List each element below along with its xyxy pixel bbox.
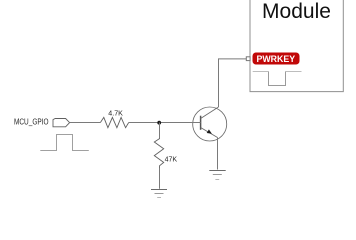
ground under Q1 emitter bbox=[209, 171, 225, 180]
svg-text:47K: 47K bbox=[165, 157, 178, 164]
module outline U1 (Module box) bbox=[250, 0, 343, 92]
wire tag to R1 bbox=[70, 122, 101, 124]
transistor Q1 bbox=[193, 107, 227, 141]
wire collector to PWRKEY pin bbox=[219, 59, 247, 107]
wire R2 to ground bbox=[159, 168, 161, 189]
pin square on Module edge (PWRKEY pin) bbox=[246, 57, 250, 61]
resistor R1 4.7K (zigzag) bbox=[100, 117, 128, 127]
emitter arrow of Q1 bbox=[207, 129, 212, 133]
resistor R2 47K (vertical zigzag) bbox=[154, 139, 163, 168]
wire node A down to R2 bbox=[159, 123, 161, 140]
svg-text:MCU_GPIO: MCU_GPIO bbox=[14, 116, 49, 126]
wire emitter to ground bbox=[217, 138, 219, 170]
svg-text:4.7K: 4.7K bbox=[108, 109, 123, 117]
wire R1 to node A and to Q1 base bbox=[129, 122, 201, 124]
pulse waveform symbol bbox=[40, 135, 89, 151]
svg-text:Module: Module bbox=[262, 0, 331, 23]
ground under R2 bbox=[151, 190, 167, 198]
pushbutton pin symbol under PWRKEY bbox=[253, 72, 302, 86]
svg-text:PWRKEY: PWRKEY bbox=[256, 54, 295, 64]
pin label PWRKEY (red badge) bbox=[253, 53, 300, 65]
node A junction dot bbox=[157, 121, 161, 125]
net tag MCU_GPIO (pointer symbol) bbox=[53, 119, 70, 127]
